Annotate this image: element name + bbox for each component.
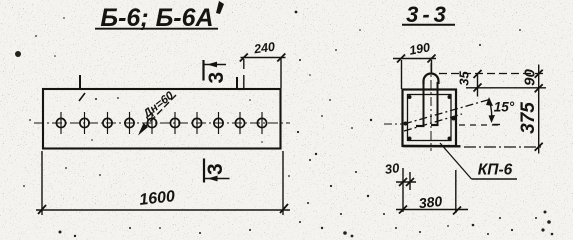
ink blob right of title — [216, 1, 224, 14]
title underline — [95, 28, 218, 30]
svg-text:15°: 15° — [494, 100, 515, 115]
extension line from section top — [466, 87, 546, 89]
svg-text:КП-6: КП-6 — [478, 162, 513, 179]
extension line from section bottom — [464, 146, 543, 148]
stray slash under top edge — [79, 93, 85, 101]
holes (10 circles with crosshairs) — [56, 112, 266, 134]
svg-text:3: 3 — [204, 163, 227, 175]
centerline dashes right of square — [459, 124, 500, 126]
svg-text:375: 375 — [518, 102, 539, 134]
section horizontal centerline (left stub) — [384, 123, 403, 125]
hole diameter label Дн=60 with leader — [138, 89, 177, 135]
title Б-6; Б-6А — [100, 4, 213, 32]
svg-text:35: 35 — [457, 71, 472, 86]
svg-text:30: 30 — [384, 160, 401, 177]
title 3-3 underline — [402, 24, 455, 26]
section cut tick on top edge (right) — [236, 77, 238, 89]
dimension 380 (bottom) — [396, 170, 468, 215]
15 deg angle arrow — [486, 97, 500, 125]
rebar dots — [404, 95, 456, 141]
beam centerline — [34, 122, 290, 124]
svg-text:Б-6; Б-6А: Б-6; Б-6А — [100, 4, 213, 32]
section outer square — [403, 90, 457, 147]
section flag 3 (bottom) — [204, 159, 230, 183]
svg-text:3-3: 3-3 — [406, 2, 450, 27]
beam outline — [43, 89, 281, 149]
section vertical centerline — [430, 63, 432, 151]
section cut tick on top edge (left) — [79, 75, 81, 89]
section inner square — [408, 95, 452, 141]
svg-text:380: 380 — [418, 193, 443, 211]
section bottom edge overshoot — [403, 145, 461, 148]
dimension 240 (top right) — [240, 54, 286, 89]
section flag 3 (top) — [204, 60, 229, 84]
sloped dash-dot line 2 — [404, 114, 462, 131]
dimension 35 (loop protrusion) — [474, 70, 482, 97]
right vertical dimension line — [535, 65, 543, 154]
lifting loop КП-6 — [416, 74, 439, 127]
extension line from loop top — [439, 73, 546, 75]
КП-6 label with leader — [440, 143, 517, 179]
dimension 30 (bottom left) — [396, 168, 416, 212]
dimension 190 (top) — [393, 55, 436, 90]
sloped dash-dot line 1 (15 deg) — [404, 99, 491, 124]
svg-text:3: 3 — [205, 72, 228, 84]
dimension 1600 (bottom) — [36, 151, 290, 215]
svg-text:90: 90 — [522, 69, 539, 86]
